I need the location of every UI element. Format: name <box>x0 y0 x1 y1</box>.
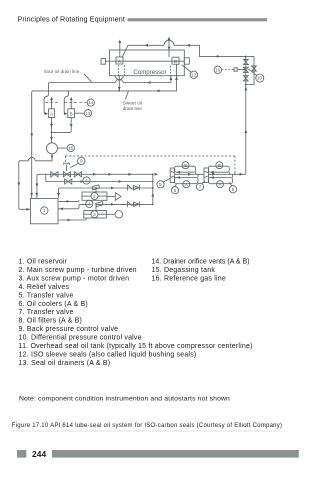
pump discharge riser <box>151 173 154 204</box>
footer grey bar <box>52 450 299 458</box>
degassing tank drain to reservoir <box>17 154 53 211</box>
svg-text:Sour oil drain line: Sour oil drain line <box>44 69 80 74</box>
aux screw pump 3 <box>84 211 107 219</box>
svg-text:6. Oil coolers (A & B): 6. Oil coolers (A & B) <box>19 301 88 308</box>
svg-text:10: 10 <box>257 76 262 81</box>
label circle 15 <box>58 144 75 151</box>
pump 2 suction <box>58 200 79 203</box>
svg-text:Note: component condition inst: Note: component condition instrumention … <box>19 395 230 402</box>
svg-text:244: 244 <box>32 449 47 459</box>
DP station bypass branch valve <box>246 56 257 84</box>
relief valve 4 main pump <box>92 185 100 190</box>
oil cooler B <box>175 162 196 175</box>
sour oil drain line from seal A to drainer A <box>44 76 172 115</box>
aux pump discharge header <box>58 203 154 210</box>
check valve main pump <box>127 185 139 191</box>
DP station lower isolation valve <box>243 76 248 81</box>
main screw pump 2 <box>82 192 107 200</box>
svg-text:B: B <box>184 163 187 168</box>
svg-text:3: 3 <box>93 212 96 217</box>
drainer A drain <box>50 118 53 143</box>
svg-text:13: 13 <box>86 111 91 116</box>
label circle 6 <box>171 184 178 194</box>
footer grey square <box>17 450 26 458</box>
turbine driver <box>107 193 121 201</box>
svg-text:16. Reference gas line: 16. Reference gas line <box>152 275 226 282</box>
check valve aux pump <box>127 201 139 207</box>
svg-text:A: A <box>185 182 188 187</box>
relief valve 4 aux pump <box>96 202 104 207</box>
header grey bar <box>128 18 268 21</box>
main pump discharge header <box>57 187 154 199</box>
seal A funnel drop <box>118 76 121 92</box>
cooler to filter supply line <box>175 173 204 176</box>
seal oil supply riser <box>244 56 247 175</box>
oil reservoir 1 <box>31 199 59 224</box>
svg-text:B: B <box>218 163 221 168</box>
svg-text:14: 14 <box>88 100 93 105</box>
svg-text:15: 15 <box>68 146 73 151</box>
svg-text:7. Transfer valve: 7. Transfer valve <box>19 309 74 316</box>
svg-text:Figure 17.10 API 614 lube-seal: Figure 17.10 API 614 lube-seal oil syste… <box>12 423 282 429</box>
seal oil supply header <box>122 40 254 57</box>
DP station upper isolation valve <box>243 56 248 84</box>
svg-text:A: A <box>50 112 54 117</box>
svg-text:10. Differential pressure cont: 10. Differential pressure control valve <box>19 335 142 342</box>
sour oil drain line label <box>44 69 92 82</box>
label circle 13 seal oil drainers <box>75 110 92 117</box>
svg-text:9: 9 <box>80 159 83 164</box>
label circle 8 <box>229 182 236 193</box>
svg-text:12. ISO sleeve seals (also cal: 12. ISO sleeve seals (also called liquid… <box>19 351 197 358</box>
pump 3 discharge stub <box>95 204 97 210</box>
sour oil drain branch to drainer B <box>64 91 70 115</box>
sweet oil drain line label <box>123 92 142 112</box>
svg-text:6: 6 <box>174 188 177 193</box>
svg-text:7: 7 <box>199 185 202 190</box>
svg-text:Sweet oil: Sweet oil <box>123 101 142 106</box>
label circle 16 <box>214 66 221 73</box>
svg-text:14. Drainer orifice vents (A &: 14. Drainer orifice vents (A & B) <box>152 259 250 266</box>
compressor body <box>110 50 185 76</box>
drainer B drain <box>52 118 73 133</box>
svg-text:16: 16 <box>215 68 220 73</box>
svg-text:3. Aux screw pump - motor driv: 3. Aux screw pump - motor driven <box>19 275 130 282</box>
svg-text:2. Main screw pump - turbine d: 2. Main screw pump - turbine driven <box>19 267 137 274</box>
label circle 4 aux <box>86 200 93 207</box>
svg-text:13. Seal oil drainers (A & B): 13. Seal oil drainers (A & B) <box>19 360 111 367</box>
svg-text:1: 1 <box>43 208 46 213</box>
svg-text:12: 12 <box>191 73 196 78</box>
compressor shaft <box>106 60 185 62</box>
svg-text:15. Degassing tank: 15. Degassing tank <box>152 267 216 274</box>
svg-text:8. Oil filters (A & B): 8. Oil filters (A & B) <box>19 318 83 325</box>
svg-text:9. Back pressure control valve: 9. Back pressure control valve <box>19 326 119 333</box>
oil filter B <box>208 162 229 175</box>
reference gas line 16 dashed <box>222 69 235 71</box>
svg-text:4. Relief valves: 4. Relief valves <box>19 284 70 291</box>
label circle 9 <box>70 157 85 167</box>
drainer B orifice vent <box>65 97 79 109</box>
legend list left column <box>19 259 253 367</box>
svg-text:4: 4 <box>85 178 88 183</box>
degassing tank 15 <box>47 143 58 154</box>
svg-text:drain line: drain line <box>123 106 142 111</box>
svg-text:8: 8 <box>232 187 235 192</box>
motor driver <box>106 211 122 219</box>
svg-text:5: 5 <box>159 182 162 187</box>
svg-text:5. Transfer valve: 5. Transfer valve <box>19 292 74 299</box>
svg-text:Principles of Rotating Equipme: Principles of Rotating Equipment <box>18 15 125 24</box>
back pressure line to reservoir <box>36 173 159 199</box>
legend list right column <box>152 259 250 283</box>
svg-text:1. Oil reservoir: 1. Oil reservoir <box>19 259 68 266</box>
label circle 7 <box>196 181 205 190</box>
shaft stub right <box>184 58 189 64</box>
BPCV left isolation valve <box>51 172 58 177</box>
filter outlet to supply riser <box>208 173 245 176</box>
drain funnel under seal A <box>115 76 124 80</box>
differential pressure control valve 10 <box>243 67 248 72</box>
pump 3 suction <box>58 218 86 221</box>
vent line to overhead tank 11 from seal B <box>168 37 171 58</box>
reference gas orifice <box>234 68 246 71</box>
seal A leakage dashed drop <box>119 65 125 75</box>
instrument signal dashed line <box>66 156 236 175</box>
transfer valve 7 <box>204 168 208 183</box>
label circle 10 <box>248 69 263 82</box>
seal A (ISO sleeve seal) <box>116 57 123 65</box>
svg-text:11. Overhead seal oil tank (ty: 11. Overhead seal oil tank (typically 15… <box>19 343 253 350</box>
label circle 12 ISO sleeve seals <box>182 65 198 79</box>
svg-text:A: A <box>219 182 222 187</box>
sweet oil drain header to reservoir <box>30 76 178 199</box>
BPCV bypass globe valve <box>65 179 72 184</box>
vent line to overhead tank 11 from seal A <box>118 40 121 58</box>
drainer A orifice vent <box>46 97 59 109</box>
oil cooler A <box>175 174 198 187</box>
BPCV right isolation valve <box>74 172 81 177</box>
pump 2 discharge stub <box>95 188 97 192</box>
seal oil drainer A <box>49 109 55 118</box>
svg-text:B: B <box>174 59 177 65</box>
back pressure control valve body <box>63 172 70 177</box>
shaft stub left <box>101 58 106 64</box>
label circle 4 main <box>83 177 90 184</box>
oil filter A <box>208 174 232 187</box>
label circle 5 <box>157 179 170 188</box>
back pressure control valve 9 actuator <box>64 163 70 171</box>
seal oil drainer B <box>68 109 75 118</box>
seal B leakage dashed drop <box>171 65 177 76</box>
svg-text:B: B <box>70 112 73 117</box>
svg-text:Compressor: Compressor <box>133 69 166 76</box>
label circle 14 drainer orifice vents <box>80 99 95 106</box>
transfer valve 5 <box>170 168 174 183</box>
BPCV bypass line <box>46 174 154 183</box>
seal B (ISO sleeve seal) <box>172 57 179 65</box>
caption rule <box>12 430 280 432</box>
svg-text:2: 2 <box>93 194 96 199</box>
